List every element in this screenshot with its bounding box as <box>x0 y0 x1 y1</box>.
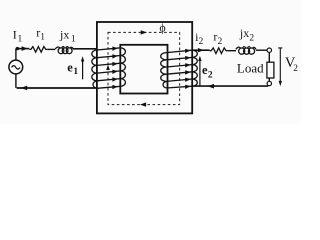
return current arrow i2 (left) <box>208 84 215 89</box>
svg-text:1: 1 <box>71 35 76 45</box>
resistor r2 <box>210 48 228 54</box>
svg-text:2: 2 <box>218 37 223 47</box>
junction dot node A <box>16 47 19 50</box>
svg-text:jx: jx <box>239 26 249 40</box>
svg-text:1: 1 <box>18 34 23 44</box>
inductor jx2 <box>236 47 256 55</box>
wire r2 to jx2 <box>228 50 236 52</box>
wire load to bottom terminal <box>268 78 270 81</box>
secondary winding current arrows <box>185 49 190 89</box>
wire jx2 to terminal <box>256 49 267 51</box>
wire jx1 to core <box>73 48 97 50</box>
flux arrow top (right) <box>141 30 147 34</box>
wire source bottom lead <box>15 74 17 88</box>
svg-text:2: 2 <box>199 37 204 47</box>
flux arrow left leg (up) <box>106 65 110 71</box>
svg-text:1: 1 <box>73 67 78 77</box>
svg-text:2: 2 <box>293 64 298 74</box>
svg-text:I: I <box>13 28 17 42</box>
emf arrow e1 <box>82 59 84 79</box>
svg-text:2: 2 <box>249 34 254 44</box>
wire terminal to load <box>268 53 270 63</box>
wire top left to resistor r1 <box>16 48 29 50</box>
inductor jx1 <box>55 47 73 54</box>
return current arrow (left) <box>21 86 27 91</box>
svg-text:ϕ: ϕ <box>159 21 165 35</box>
svg-text:1: 1 <box>40 33 45 43</box>
transformer core window <box>120 45 167 94</box>
wire bottom left return <box>17 87 97 89</box>
AC source V1 <box>9 60 23 74</box>
current arrow I1 <box>22 46 28 51</box>
primary winding current arrows <box>112 47 117 90</box>
wire secondary top to r2 <box>192 49 210 51</box>
svg-text:e: e <box>67 61 73 75</box>
load resistor box <box>267 62 274 78</box>
transformer core outer edge <box>97 22 192 113</box>
current arrow i2 <box>198 48 204 52</box>
terminal top <box>267 48 271 52</box>
wire source top lead <box>15 49 17 60</box>
resistor r1 <box>29 47 47 53</box>
wire r1 to jx1 <box>47 48 55 50</box>
svg-text:Load: Load <box>237 60 264 75</box>
flux arrow bottom (left) <box>140 102 146 106</box>
terminal bottom <box>267 81 271 85</box>
emf arrow e2 <box>199 58 201 86</box>
flux path loop (dashed) <box>108 32 180 104</box>
voltage arrow V2 <box>278 48 282 86</box>
secondary winding W2 <box>161 50 198 88</box>
primary winding W1 <box>92 48 126 89</box>
wire bottom right return <box>192 85 268 87</box>
svg-text:2: 2 <box>208 70 213 80</box>
svg-text:jx: jx <box>59 27 69 41</box>
